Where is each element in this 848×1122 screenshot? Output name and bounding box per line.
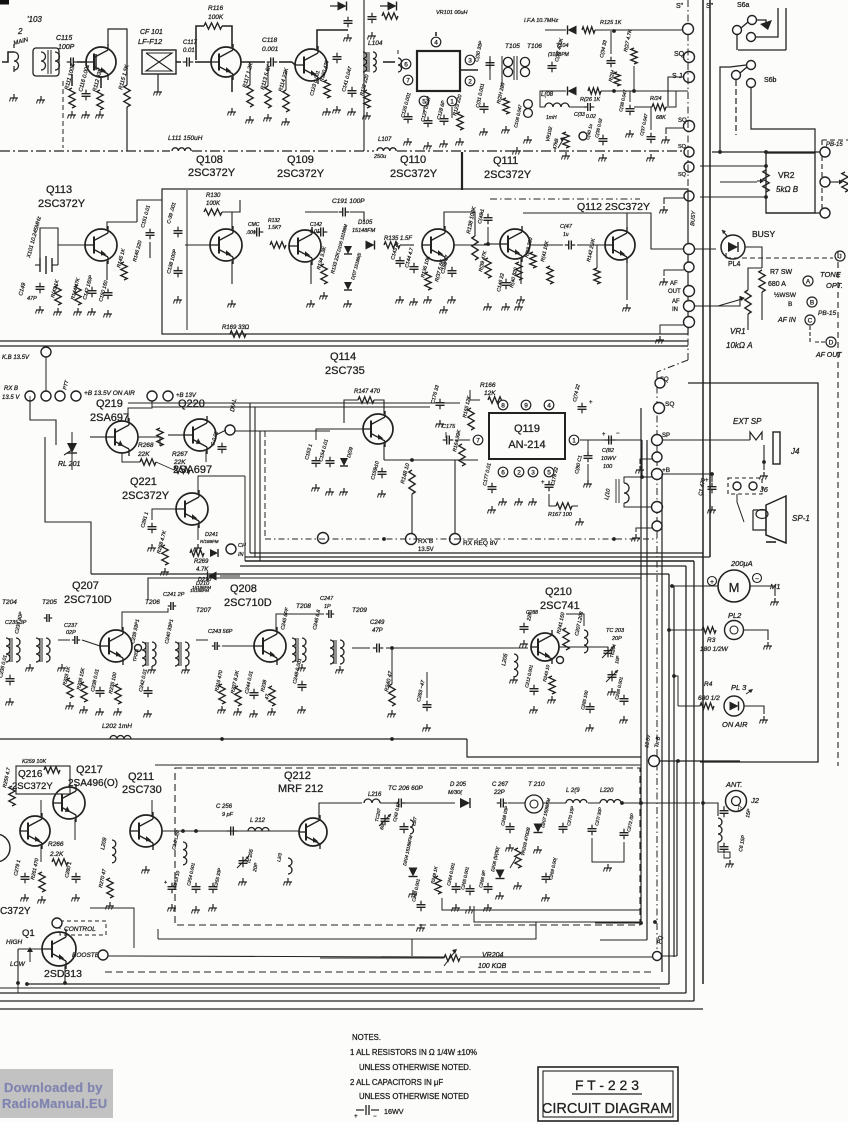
capacitor C279	[24, 873, 26, 877]
pin D	[826, 337, 836, 347]
inductor L111	[172, 148, 191, 151]
svg-text:1 ALL RESISTORS IN Ω 1/4W ±10%: 1 ALL RESISTORS IN Ω 1/4W ±10%	[350, 1048, 477, 1057]
wire r142 up	[596, 245, 598, 268]
gnd c265	[469, 906, 471, 910]
meter M1	[718, 570, 750, 602]
terminal KB	[41, 347, 51, 357]
svg-text:R3: R3	[707, 637, 716, 644]
svg-text:0.001: 0.001	[262, 46, 279, 53]
svg-text:SP: SP	[662, 433, 670, 439]
trunk x669	[668, 574, 670, 984]
antenna jack J2	[726, 791, 747, 812]
terminal RXB mid	[318, 533, 329, 544]
gnd t207	[185, 666, 187, 670]
fet gate bar	[95, 54, 97, 70]
ground r122	[366, 112, 368, 116]
gnd l205	[513, 676, 515, 680]
capacitor C270	[562, 823, 564, 827]
bus A4	[245, 560, 694, 562]
wire c6 join	[724, 854, 730, 858]
ground c121	[371, 32, 373, 36]
title box outer	[538, 1067, 678, 1121]
svg-text:4: 4	[547, 403, 551, 410]
resistor R135	[384, 242, 400, 248]
svg-text:.001: .001	[246, 230, 256, 236]
svg-text:UNLESS OTHERWISE NOTED: UNLESS OTHERWISE NOTED	[359, 1092, 469, 1101]
bus C6	[0, 1008, 703, 1010]
svg-text:2SC735: 2SC735	[325, 365, 365, 377]
wire +B to PB15	[712, 151, 820, 153]
svg-text:22K: 22K	[173, 459, 186, 466]
capacitor C7	[723, 807, 725, 811]
svg-text:R269: R269	[194, 559, 209, 565]
diode D107b	[344, 282, 352, 290]
gnd c150	[107, 310, 109, 314]
wire s6b c	[751, 88, 815, 153]
wire vr204 r	[460, 956, 652, 958]
filter XF101 body	[417, 51, 460, 91]
terminal TXB	[649, 756, 660, 767]
tuned transformer T204	[6, 638, 10, 662]
svg-text:C191 100P: C191 100P	[332, 198, 365, 205]
headphone jack J4	[750, 432, 762, 440]
diode D102	[388, 2, 397, 11]
gnd d107	[343, 488, 345, 492]
gnd x101	[39, 306, 41, 310]
resistor R235	[115, 684, 121, 704]
ground R117	[249, 116, 251, 120]
terminal T7	[684, 262, 694, 272]
svg-text:5kΩ B: 5kΩ B	[776, 185, 799, 194]
terminal PQ	[653, 952, 662, 961]
wire t209 out	[352, 647, 370, 649]
wire r147 left	[344, 400, 358, 423]
svg-text:680 A: 680 A	[768, 281, 786, 288]
ground CF101	[157, 88, 159, 92]
resistor R240	[389, 684, 395, 706]
wire booster	[108, 956, 444, 957]
svg-text:C: C	[808, 318, 813, 325]
svg-text:D210: D210	[196, 581, 210, 587]
svg-text:CF 101: CF 101	[140, 29, 163, 36]
capacitor C249	[373, 647, 377, 649]
wire t6 gnd	[664, 198, 684, 204]
wire sp circuit	[737, 494, 744, 522]
bus C0 dashed	[105, 971, 655, 973]
wire t6b gnd	[636, 528, 652, 532]
mechanical filter CF101	[142, 50, 176, 74]
resistor R259	[44, 767, 60, 773]
gnd r121	[505, 126, 507, 130]
bus B2 step	[467, 739, 641, 757]
capacitor C126	[407, 113, 409, 117]
svg-text:RX B: RX B	[4, 386, 18, 392]
svg-text:Q207: Q207	[72, 580, 99, 592]
capacitor TC206	[395, 802, 399, 804]
gnd c242	[147, 710, 149, 714]
wire q108 e	[231, 77, 233, 92]
gnd t10	[659, 336, 661, 340]
rail +B 407	[152, 406, 430, 408]
wire c283 up	[426, 672, 428, 698]
diode D106	[344, 246, 352, 254]
svg-text:R266: R266	[48, 841, 64, 848]
wire row 197	[700, 196, 766, 198]
terminal SQ3	[684, 121, 695, 132]
wire ant path	[703, 803, 718, 816]
dashed control box	[60, 921, 106, 935]
capacitor C134	[610, 57, 612, 61]
IC Q119 AN-214 box	[489, 413, 565, 459]
svg-text:Q113: Q113	[46, 184, 72, 196]
transistor Q210	[531, 633, 559, 661]
terminal RXB 13.5	[406, 534, 417, 545]
gnd c263	[420, 924, 422, 928]
wire q220 out	[216, 430, 226, 435]
svg-text:R268: R268	[138, 442, 154, 449]
gnd j4	[763, 472, 765, 476]
gnd c177	[491, 506, 493, 510]
RF box outline	[148, 578, 641, 600]
resistor R3	[702, 627, 716, 633]
svg-text:CONTROL: CONTROL	[64, 926, 96, 933]
capacitor C150	[107, 289, 109, 293]
trunk x686	[685, 566, 687, 993]
wire pin7 net	[455, 439, 470, 441]
gnd r235	[117, 708, 119, 712]
gnd r134	[323, 292, 325, 296]
capacitor C175	[443, 439, 447, 441]
capacitor C147	[565, 244, 569, 246]
wire pl3 path	[674, 676, 678, 706]
svg-text:22P: 22P	[493, 790, 505, 796]
trimmer TC204	[611, 671, 613, 675]
gnd q211	[145, 866, 147, 870]
svg-text:0.02: 0.02	[586, 114, 596, 120]
capacitor C127	[427, 117, 429, 121]
terminal gnd sp	[652, 452, 662, 462]
svg-text:+: +	[589, 400, 593, 406]
wire pb15 wiper	[830, 181, 838, 183]
svg-text:680 1/2: 680 1/2	[698, 695, 720, 702]
svg-text:200μA: 200μA	[730, 559, 753, 568]
wire c117 to q108	[195, 61, 211, 63]
resistor R266	[52, 859, 68, 865]
svg-text:L107: L107	[378, 137, 392, 143]
gnd c248	[301, 706, 303, 710]
wire c180 lead	[587, 464, 589, 480]
wire rxreq dn	[454, 460, 456, 534]
terminal SQ4	[684, 147, 694, 157]
svg-text:Q219: Q219	[96, 398, 123, 410]
terminal T6	[684, 191, 694, 201]
svg-text:LF-F12: LF-F12	[138, 37, 163, 46]
gnd r238	[271, 708, 273, 712]
minus pin	[753, 574, 762, 583]
gnd c1	[711, 506, 713, 510]
svg-text:SQ: SQ	[678, 172, 687, 178]
pot VR204	[444, 955, 460, 961]
gnd vr102	[565, 152, 567, 156]
svg-text:R132: R132	[268, 218, 280, 224]
terminal det	[579, 132, 587, 140]
capacitor C237	[72, 639, 75, 641]
wire q114 base	[340, 428, 363, 430]
wire q113 net	[40, 228, 58, 258]
coil L205	[514, 654, 518, 677]
svg-text:Q112: Q112	[577, 201, 602, 213]
gnd c266	[487, 904, 489, 908]
wire src	[71, 74, 73, 86]
pin B	[807, 297, 817, 307]
staircase v4	[244, 476, 246, 561]
terminal SQ r2	[654, 403, 665, 414]
coil L213	[288, 858, 292, 874]
vertical x462 heavy	[461, 152, 463, 190]
resistor R139b	[485, 258, 491, 278]
wire pl2 right	[744, 630, 768, 640]
capacitor C272	[623, 829, 625, 833]
svg-text:K.B 13.5V: K.B 13.5V	[2, 355, 30, 361]
svg-text:IN: IN	[672, 307, 678, 313]
svg-text:0.01: 0.01	[310, 229, 320, 235]
input jack J103	[14, 52, 19, 70]
lamp PL2	[725, 621, 744, 640]
terminal t5	[652, 502, 663, 513]
resistor R136	[425, 272, 431, 290]
gnd c281	[151, 544, 153, 548]
wire left col 3	[29, 396, 31, 401]
dashed tone box	[726, 257, 833, 259]
transistor Q208	[254, 630, 286, 662]
svg-text:R135 1.5F: R135 1.5F	[384, 236, 412, 242]
wire l108 dn	[540, 91, 566, 107]
wire c134 net	[610, 31, 612, 54]
svg-text:R125 1K: R125 1K	[600, 20, 622, 26]
capacitor C285	[589, 703, 591, 707]
capacitor C176	[439, 399, 441, 403]
svg-text:1: 1	[450, 99, 454, 106]
gnd c271	[607, 864, 609, 868]
resistor R131	[270, 242, 286, 248]
resistor R121	[503, 98, 509, 114]
resistor R142	[594, 268, 600, 284]
svg-text:22K: 22K	[137, 451, 150, 458]
rail RXB 341	[0, 340, 688, 342]
svg-text:NOTES.: NOTES.	[352, 1033, 381, 1042]
capacitor C286	[623, 695, 625, 699]
wire pl2 left	[669, 629, 702, 631]
wire spgnd	[640, 459, 652, 464]
svg-text:L216: L216	[368, 792, 382, 798]
capacitor C133	[584, 106, 588, 108]
sense wire 2	[474, 906, 641, 922]
sense wire 3	[158, 922, 536, 939]
wire pin4	[435, 32, 437, 36]
svg-text:100K: 100K	[206, 201, 221, 207]
capacitor C191	[339, 211, 343, 213]
resistor R140	[516, 262, 522, 280]
capacitor C120	[347, 17, 349, 21]
tuned transformer T208	[292, 638, 296, 662]
svg-text:6: 6	[501, 470, 505, 477]
svg-text:OPT.: OPT.	[826, 281, 843, 290]
svg-text:20P: 20P	[611, 636, 622, 642]
transistor Q114	[363, 414, 393, 444]
row2 box outline	[162, 189, 688, 334]
svg-text:+B 13.5V ON AIR: +B 13.5V ON AIR	[84, 390, 135, 397]
svg-text:10kΩ A: 10kΩ A	[726, 341, 753, 350]
wire q109 in	[292, 62, 295, 65]
gnd r261	[41, 896, 43, 900]
capacitor C241	[168, 605, 171, 607]
bus A3	[245, 556, 710, 558]
capacitor C131	[483, 103, 485, 107]
capacitor C244	[253, 689, 255, 693]
svg-text:+: +	[602, 432, 606, 438]
wire q212 c up	[319, 803, 362, 818]
gnd pin2	[518, 498, 520, 502]
trimmer TC203	[607, 647, 609, 651]
sense wire 1	[442, 898, 640, 910]
wire q1 bus	[17, 983, 19, 993]
resistor R267	[174, 467, 190, 473]
capacitor C146b	[505, 279, 507, 283]
svg-text:C247: C247	[320, 596, 334, 602]
resistor R164	[459, 444, 465, 466]
pin 5b	[544, 467, 554, 477]
svg-text:AF IN: AF IN	[777, 317, 797, 324]
resistor R118	[382, 13, 398, 19]
wire tx chain2	[405, 802, 455, 804]
gnd l213	[287, 878, 289, 882]
pin 7	[473, 435, 483, 445]
capacitor C253 el	[171, 883, 173, 887]
diode D210	[208, 572, 217, 581]
gnd c153	[315, 484, 317, 488]
ground c122	[336, 106, 338, 110]
gnd c138b	[629, 130, 631, 134]
capacitor C143	[399, 257, 401, 261]
resistor R115	[124, 85, 130, 107]
svg-text:T207: T207	[196, 607, 211, 614]
wire q109 c	[317, 30, 348, 49]
resistor R167	[556, 503, 572, 509]
terminal DIAL	[225, 425, 235, 435]
capacitor C139	[177, 227, 179, 231]
svg-text:T104: T104	[556, 43, 569, 49]
gnd c254	[195, 906, 197, 910]
trunk x641	[640, 408, 642, 923]
wire r117 up	[249, 62, 251, 85]
terminal RX REQ	[450, 534, 461, 545]
svg-text:D105: D105	[358, 220, 373, 226]
resistor R114	[283, 90, 289, 112]
capacitor C130 33P	[489, 59, 491, 63]
gnd c137b	[650, 154, 652, 158]
svg-text:VR2: VR2	[778, 170, 795, 180]
capacitor C265	[469, 885, 471, 889]
wire x101 base	[58, 245, 85, 265]
pin 3	[465, 55, 475, 65]
terminal BUSY	[684, 244, 695, 255]
resistor R138	[472, 236, 478, 260]
gnd vr203	[517, 882, 519, 886]
svg-text:'103: '103	[27, 15, 42, 24]
wire det top2	[595, 29, 688, 31]
bus C3	[0, 992, 686, 994]
terminal c1	[25, 391, 35, 401]
svg-text:CMC: CMC	[248, 222, 260, 228]
gnd c268	[509, 844, 511, 848]
step path left	[45, 437, 91, 574]
wire pin5 dn	[423, 107, 425, 113]
gnd t7	[663, 278, 665, 282]
terminal SQ2	[684, 72, 695, 83]
capacitor C281	[151, 523, 153, 527]
fet Q106	[86, 47, 116, 77]
svg-text:2SA697: 2SA697	[90, 412, 129, 424]
svg-text:T208: T208	[296, 603, 311, 610]
wire det mid2	[601, 90, 688, 92]
svg-text:Q210: Q210	[545, 586, 572, 598]
wire c1 net	[662, 474, 712, 482]
svg-text:−: −	[373, 1114, 377, 1120]
gnd c244	[253, 710, 255, 714]
wire q112 load right	[627, 213, 684, 249]
svg-text:100K: 100K	[208, 14, 224, 21]
svg-text:L 212: L 212	[250, 818, 266, 824]
svg-text:C(47: C(47	[560, 224, 573, 230]
gnd c286	[623, 716, 625, 720]
resistor R123b	[457, 112, 463, 130]
sense wire 3b	[157, 929, 159, 939]
diode D104 mid	[568, 87, 577, 96]
diode D205	[460, 798, 470, 808]
svg-text:TC 206 60P: TC 206 60P	[388, 785, 423, 792]
transformer T106 loops	[520, 57, 529, 66]
svg-text:R116: R116	[208, 5, 223, 12]
wire base net	[316, 429, 344, 440]
gnd c280	[75, 894, 77, 898]
wire r124 conn	[634, 106, 652, 108]
gnd c138	[177, 296, 179, 300]
wire q108 out	[241, 61, 265, 63]
wire q208 c	[276, 614, 324, 630]
transistor Q212	[299, 818, 327, 846]
wire tx chain1	[380, 802, 395, 804]
wire 923	[595, 922, 641, 924]
capacitor C243	[212, 645, 215, 647]
svg-text:Q212: Q212	[284, 770, 311, 782]
svg-text:UNLESS OTHERWISE NOTED.: UNLESS OTHERWISE NOTED.	[359, 1063, 471, 1072]
rail RXB 346	[0, 345, 688, 347]
svg-text:PL4: PL4	[728, 261, 741, 268]
pin 5	[419, 96, 429, 106]
minus mark	[766, 541, 776, 543]
vertical x364 top	[363, 0, 365, 151]
wire KB down	[45, 357, 47, 392]
svg-text:HIGH: HIGH	[6, 939, 23, 946]
wire j4 gnd	[763, 445, 765, 470]
wire r166 wires	[470, 390, 480, 400]
terminal small	[557, 657, 564, 664]
capacitor C177	[491, 483, 493, 487]
wire c271 gnd	[592, 838, 624, 862]
svg-text:J6: J6	[759, 485, 769, 494]
wire l110 top	[624, 477, 642, 483]
wire q217 em	[74, 819, 76, 840]
